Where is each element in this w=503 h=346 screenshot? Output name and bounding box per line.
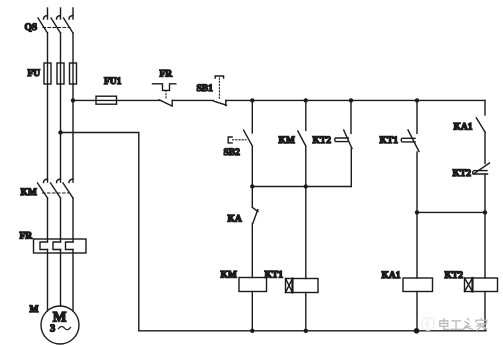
- wire control feed to FU1 and FR contact: [73, 99, 160, 101]
- svg-text:KT1: KT1: [265, 270, 284, 280]
- node junction KT1 branch: [415, 98, 419, 102]
- svg-text:KT2: KT2: [313, 136, 332, 146]
- contactor KM main contacts: [38, 179, 74, 198]
- motor M (3 phase): [41, 306, 79, 344]
- node junction SB2 tap: [250, 98, 254, 102]
- node junction mid rung KM: [304, 184, 308, 188]
- svg-text:KT2: KT2: [445, 271, 464, 281]
- svg-text:QS: QS: [25, 23, 38, 33]
- svg-text:SB2: SB2: [224, 148, 241, 158]
- svg-text:KA1: KA1: [382, 271, 401, 281]
- fuse FU1: [96, 96, 117, 104]
- svg-text:FU: FU: [28, 69, 41, 79]
- node: control return tap on L2: [58, 130, 62, 134]
- svg-text:3: 3: [50, 324, 55, 335]
- node junction KM branch: [304, 98, 308, 102]
- node junction bottom KT1: [304, 329, 308, 333]
- contact KT2 (NC delayed): [335, 100, 352, 186]
- pushbutton SB2 (NO start): [228, 100, 252, 186]
- node junction rung left: [415, 210, 419, 214]
- wire FR to SB1: [172, 99, 213, 101]
- contact KT2 right (NC delayed): [473, 163, 490, 212]
- coil KM: [239, 278, 267, 331]
- svg-text:FR: FR: [160, 69, 173, 79]
- svg-text:KT1: KT1: [380, 136, 399, 146]
- watermark logo icon: [422, 318, 435, 331]
- watermark text 电工之家: [440, 318, 487, 330]
- fuse FU (3 poles): [44, 63, 77, 84]
- overload relay FR heater box: [34, 239, 87, 253]
- svg-text:KM: KM: [279, 136, 295, 146]
- svg-text:KM: KM: [221, 270, 237, 280]
- switch QS: [38, 16, 73, 34]
- svg-text:KM: KM: [21, 188, 37, 198]
- svg-text:KA1: KA1: [454, 123, 473, 133]
- pushbutton SB1 (NC stop): [214, 76, 227, 106]
- contact KT1 (delayed): [401, 100, 419, 212]
- coil KT1 (time relay): [286, 187, 319, 331]
- svg-text:SB1: SB1: [197, 84, 214, 94]
- svg-text:KT2: KT2: [453, 169, 472, 179]
- wire control return (left and bottom bus): [61, 133, 487, 331]
- wire phase line L2: [60, 8, 62, 306]
- svg-text:FR: FR: [20, 232, 33, 242]
- wire mid rung (SB2/KM/KT2 join): [252, 186, 351, 188]
- contact KM auxiliary (NO): [298, 100, 306, 186]
- label 3~ inside motor: [50, 324, 71, 335]
- wire phase line L1: [47, 8, 49, 311]
- wire rung KT1/KA1 join: [417, 211, 485, 213]
- node junction KT2 branch: [349, 98, 353, 102]
- wire right branch from top bus: [484, 100, 486, 115]
- svg-text:KA: KA: [228, 215, 242, 225]
- coil KA1: [403, 212, 433, 330]
- wire top control bus: [226, 99, 485, 101]
- node junction bottom KA1: [414, 328, 420, 334]
- wire phase line L3: [72, 8, 74, 311]
- svg-text:M: M: [30, 305, 39, 315]
- node junction bottom KM: [250, 329, 254, 333]
- contact KA (NO): [252, 187, 258, 278]
- node: control feed tap on L3: [71, 98, 75, 102]
- coil KT2 (time relay): [465, 212, 498, 330]
- svg-text:FU1: FU1: [104, 77, 122, 87]
- node junction rung right: [483, 210, 487, 214]
- thermal contact FR (NC): [153, 84, 176, 106]
- contact KA1 (NO): [476, 118, 485, 164]
- node junction mid rung left: [250, 184, 254, 188]
